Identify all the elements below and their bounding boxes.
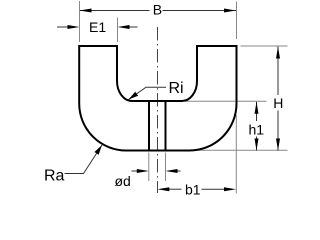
svg-text:B: B: [153, 2, 162, 18]
svg-text:Ri: Ri: [169, 80, 184, 97]
svg-text:h1: h1: [249, 121, 265, 137]
svg-text:H: H: [273, 95, 283, 111]
svg-text:b1: b1: [185, 181, 201, 197]
svg-text:E1: E1: [89, 19, 106, 35]
svg-text:Ra: Ra: [44, 168, 65, 185]
svg-text:ød: ød: [115, 173, 131, 189]
